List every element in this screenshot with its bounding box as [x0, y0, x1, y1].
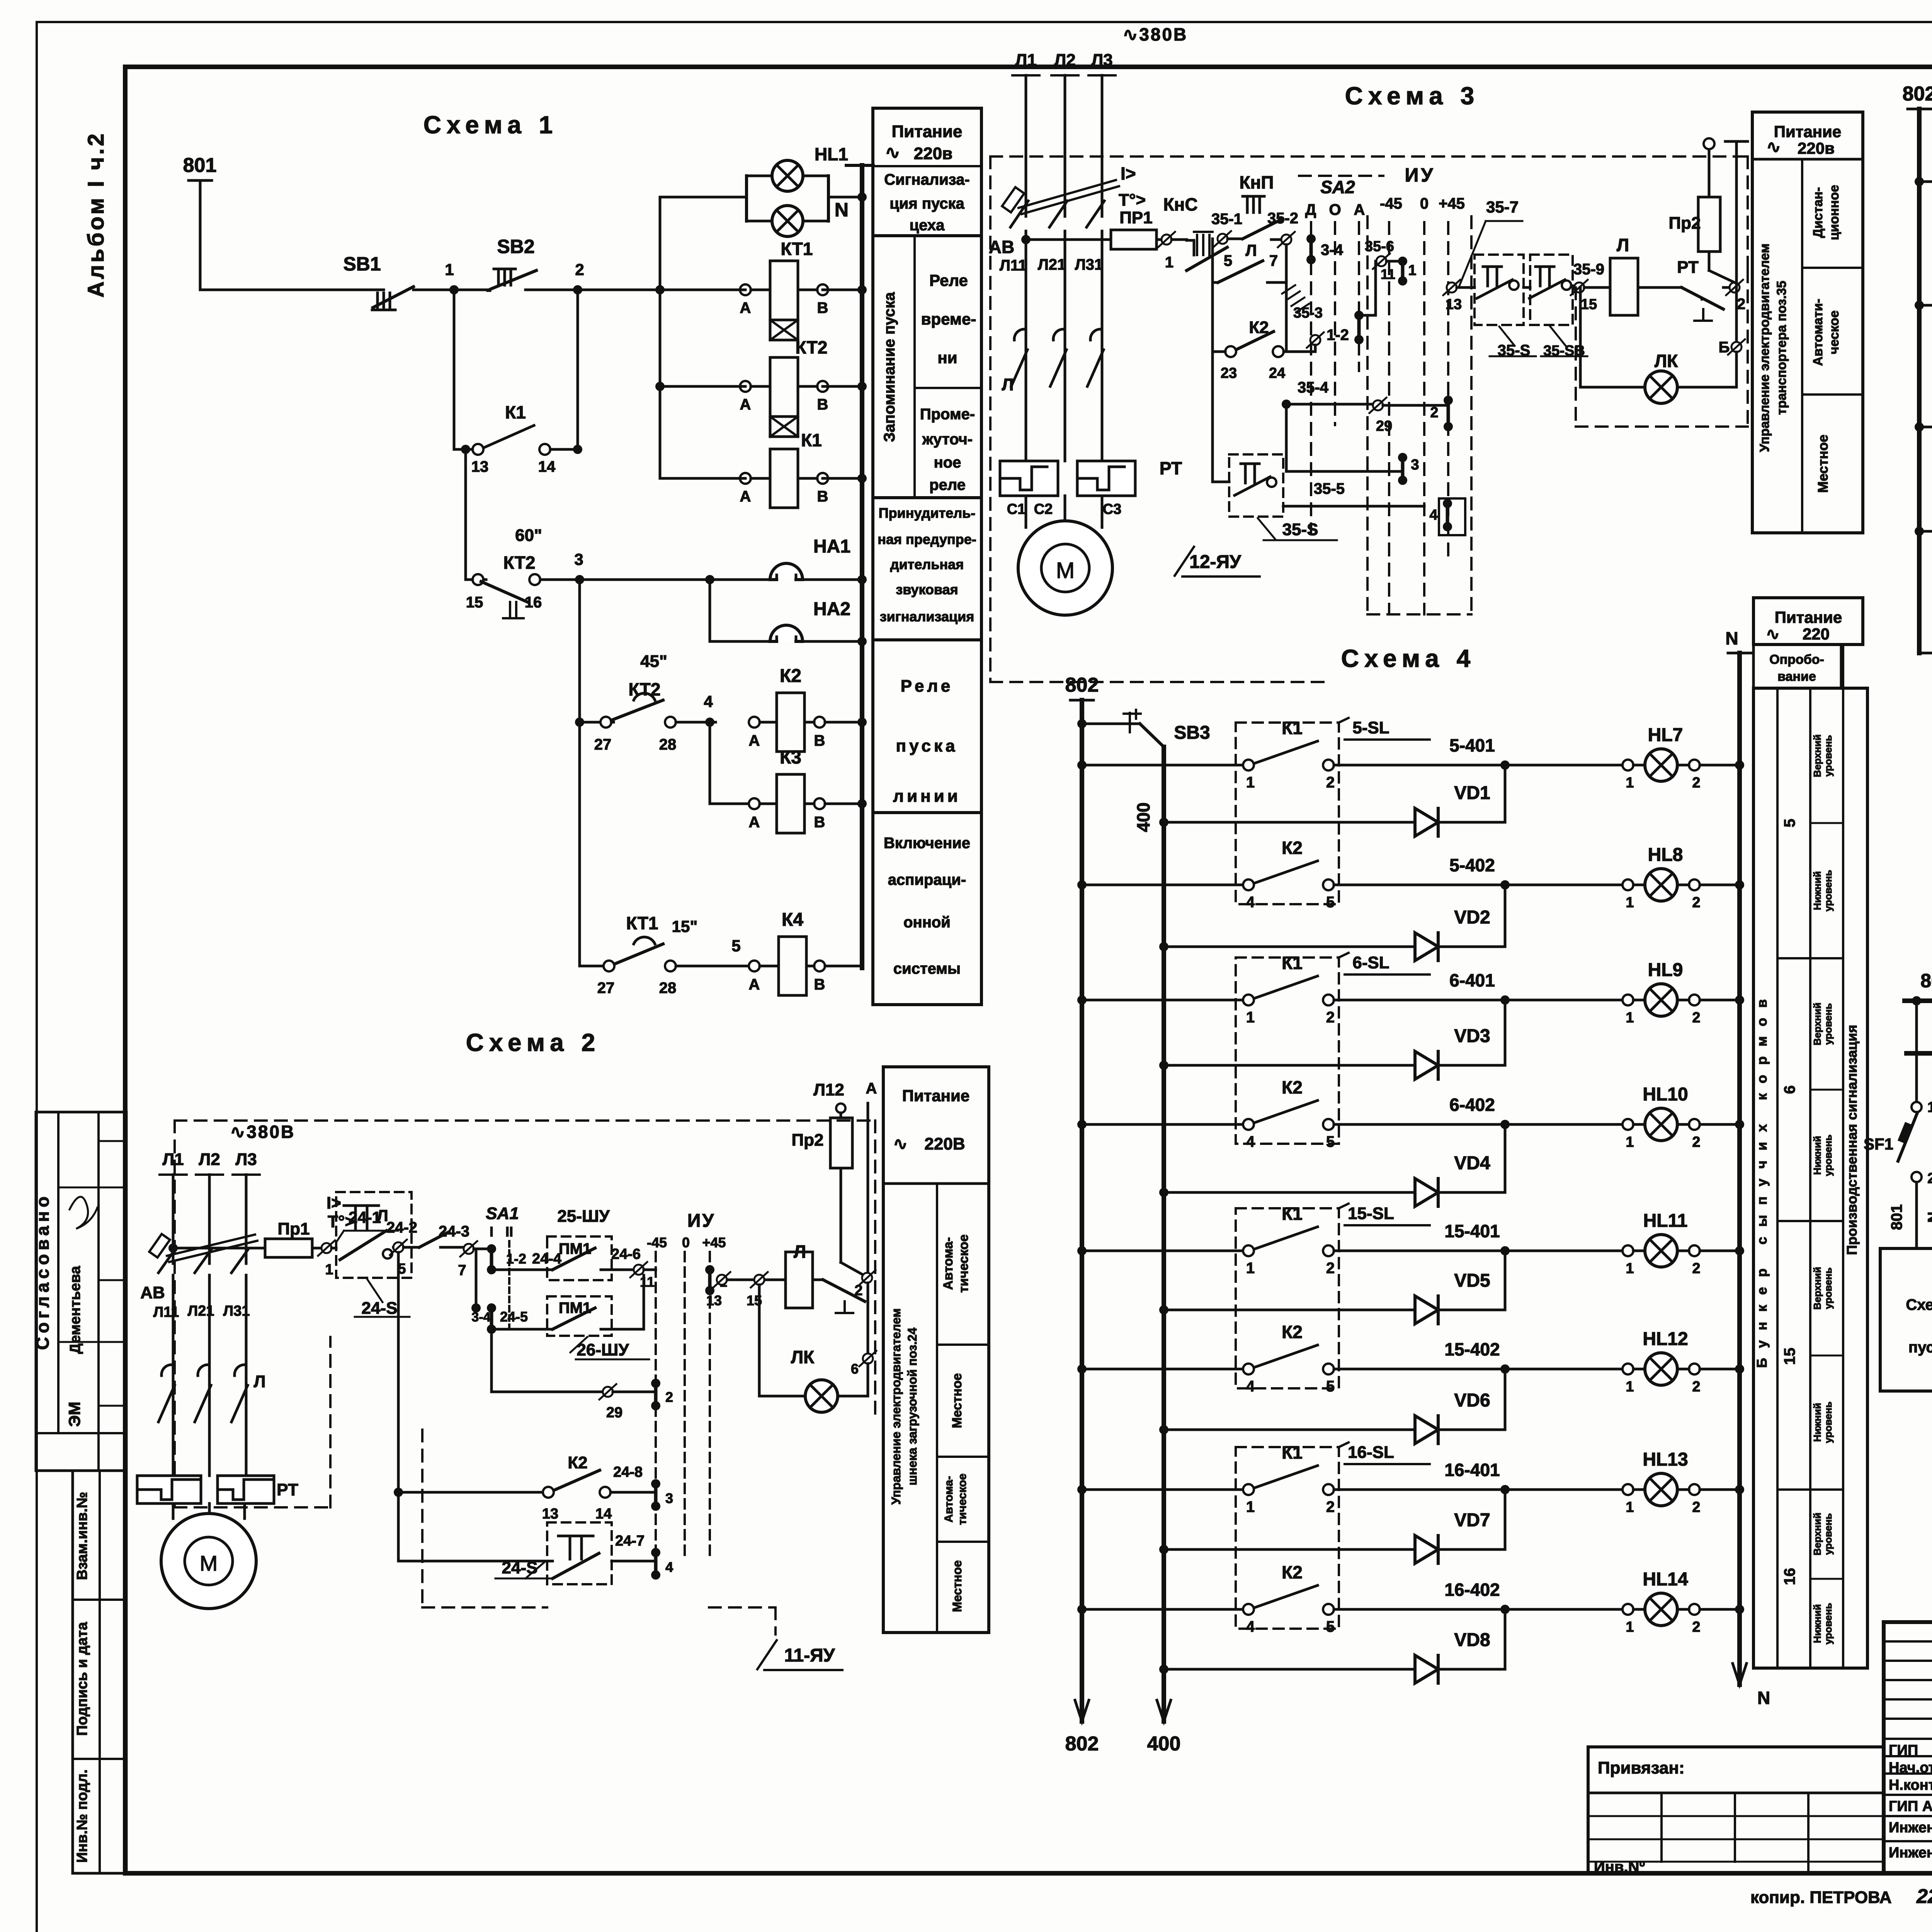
row 5-401 with lamp HL7 — [1077, 760, 1087, 770]
cell Автоматическое — [1802, 393, 1863, 396]
svg-text:16: 16 — [1781, 1568, 1798, 1585]
svg-text:К2: К2 — [1282, 1077, 1303, 1097]
svg-text:НА2: НА2 — [813, 599, 850, 619]
svg-text:В: В — [814, 732, 825, 749]
svg-text:Питание: Питание — [1775, 608, 1842, 626]
terminal 29 — [1373, 400, 1383, 410]
column Запоминание пуска — [913, 236, 916, 498]
SA1 contact 1-2 — [487, 1244, 496, 1253]
svg-text:35-7: 35-7 — [1486, 198, 1519, 216]
stamp signature — [70, 1197, 97, 1229]
svg-text:15: 15 — [1781, 1348, 1798, 1365]
svg-text:зигнализация: зигнализация — [880, 609, 975, 624]
svg-text:15: 15 — [466, 594, 483, 611]
svg-text:уровень: уровень — [1822, 1401, 1834, 1443]
svg-text:15: 15 — [1581, 296, 1597, 313]
svg-text:1: 1 — [445, 260, 454, 279]
svg-text:ПМ1: ПМ1 — [559, 1240, 591, 1257]
node 2 — [573, 285, 582, 294]
contact K2 schema3 — [1211, 282, 1214, 482]
svg-text:SF1: SF1 — [1864, 1135, 1893, 1153]
svg-text:Схема 1: Схема 1 — [423, 111, 558, 139]
svg-text:16-SL: 16-SL — [1348, 1443, 1394, 1462]
svg-text:Пр2: Пр2 — [792, 1131, 824, 1150]
svg-text:1: 1 — [1246, 1260, 1255, 1277]
svg-text:29: 29 — [1376, 418, 1392, 434]
svg-text:6-402: 6-402 — [1449, 1095, 1495, 1115]
svg-text:Л21: Л21 — [1038, 256, 1066, 273]
svg-text:Верхний: Верхний — [1811, 1267, 1823, 1310]
svg-text:1: 1 — [1246, 1498, 1255, 1515]
svg-text:VD8: VD8 — [1454, 1630, 1490, 1650]
IU contact 2 schema2 — [651, 1379, 660, 1388]
svg-text:24-S: 24-S — [502, 1558, 538, 1577]
label 24-S lower — [526, 1562, 545, 1578]
svg-text:пуска: пуска — [1908, 1339, 1932, 1356]
svg-text:802: 802 — [1065, 1733, 1099, 1755]
schema4 main table — [1753, 688, 1867, 1668]
svg-text:Нижний: Нижний — [1811, 1403, 1823, 1442]
svg-text:Инв.№ подл.: Инв.№ подл. — [74, 1769, 90, 1863]
svg-text:15": 15" — [672, 917, 698, 935]
cell Питание 220в — [873, 165, 981, 167]
breaker SF1 feeder 801 — [1912, 996, 1921, 1005]
svg-text:аспираци-: аспираци- — [888, 871, 966, 888]
svg-text:време-: време- — [921, 310, 976, 328]
svg-text:КнП: КнП — [1240, 172, 1274, 192]
svg-text:4: 4 — [1246, 1618, 1255, 1635]
svg-text:К1: К1 — [1282, 1442, 1303, 1463]
svg-text:2: 2 — [1692, 1260, 1700, 1277]
svg-text:7: 7 — [1269, 252, 1278, 269]
left stamp lower block — [73, 1471, 126, 1873]
svg-text:Схема 4: Схема 4 — [1341, 645, 1476, 672]
node 1 — [449, 285, 459, 294]
svg-text:24-S: 24-S — [362, 1299, 398, 1318]
wire lamps to N bus — [828, 196, 862, 199]
svg-text:ЛК: ЛК — [791, 1347, 815, 1367]
svg-text:К2: К2 — [568, 1453, 587, 1472]
relay coil K2 — [710, 721, 716, 724]
svg-text:О: О — [1329, 201, 1341, 218]
float switch P1 row 403 — [1919, 652, 1932, 655]
svg-text:N: N — [1925, 1212, 1932, 1223]
svg-text:Автома-: Автома- — [942, 1476, 955, 1522]
svg-text:Верхний: Верхний — [1811, 1003, 1823, 1046]
relay coil K4 — [749, 961, 760, 971]
wire node3 to bells — [580, 578, 710, 581]
phase wires schema2 — [172, 1275, 175, 1476]
svg-text:В: В — [817, 396, 828, 413]
svg-text:5: 5 — [1326, 894, 1335, 911]
label 26-ShU — [570, 1337, 587, 1352]
svg-text:13: 13 — [706, 1293, 722, 1308]
svg-text:VD1: VD1 — [1454, 783, 1490, 803]
svg-text:Производственная сигнализация: Производственная сигнализация — [1844, 1025, 1860, 1255]
svg-text:35-3: 35-3 — [1293, 305, 1323, 321]
svg-text:А: А — [1354, 201, 1365, 218]
svg-text:16-402: 16-402 — [1444, 1580, 1500, 1600]
svg-text:Л1: Л1 — [162, 1150, 184, 1169]
IU contact 1 — [1398, 257, 1407, 266]
svg-text:VD6: VD6 — [1454, 1390, 1490, 1411]
svg-text:уровень: уровень — [1822, 1134, 1834, 1176]
svg-text:Л3: Л3 — [1091, 51, 1112, 70]
svg-text:Запоминание пуска: Запоминание пуска — [881, 292, 898, 442]
svg-text:Инженер: Инженер — [1889, 1845, 1932, 1861]
svg-text:А: А — [740, 488, 751, 505]
svg-text:-45: -45 — [1380, 195, 1402, 212]
diode VD2 — [1159, 942, 1168, 951]
IU contact 1 schema2 — [705, 1265, 714, 1274]
svg-text:Верхний: Верхний — [1811, 1513, 1823, 1556]
label 24-S schema2 — [367, 1279, 383, 1302]
svg-text:системы: системы — [893, 960, 961, 977]
svg-text:SB2: SB2 — [497, 236, 534, 257]
svg-text:15-401: 15-401 — [1444, 1221, 1500, 1241]
svg-text:29: 29 — [606, 1405, 622, 1421]
contact L self-hold schema3 — [1211, 239, 1214, 282]
svg-text:2: 2 — [1430, 405, 1438, 421]
svg-text:SA1: SA1 — [486, 1204, 519, 1223]
svg-text:1: 1 — [1246, 1009, 1255, 1026]
svg-text:2: 2 — [1692, 1499, 1700, 1515]
svg-text:КТ2: КТ2 — [503, 553, 536, 573]
lamp HL1 bottom — [747, 220, 771, 223]
svg-text:II: II — [505, 1224, 513, 1240]
svg-text:12-ЯУ: 12-ЯУ — [1189, 552, 1242, 572]
junction riser — [655, 285, 665, 294]
svg-text:13: 13 — [471, 458, 489, 475]
svg-text:Автома-: Автома- — [941, 1237, 956, 1290]
svg-text:КТ2: КТ2 — [629, 679, 661, 699]
svg-text:М: М — [1056, 558, 1075, 583]
svg-text:ЭМ: ЭМ — [65, 1402, 83, 1427]
svg-text:жуточ-: жуточ- — [922, 431, 973, 448]
svg-text:28: 28 — [659, 980, 677, 997]
svg-text:Схема: Схема — [1906, 1296, 1932, 1313]
svg-text:К2: К2 — [780, 666, 801, 686]
svg-text:HL10: HL10 — [1643, 1084, 1688, 1105]
svg-text:5: 5 — [1326, 1133, 1335, 1150]
svg-text:∿380В: ∿380В — [1123, 24, 1188, 44]
svg-text:С1: С1 — [1007, 501, 1026, 517]
svg-text:Л2: Л2 — [1054, 51, 1075, 70]
svg-text:Л: Л — [1245, 241, 1257, 259]
svg-text:1: 1 — [1408, 262, 1416, 279]
svg-text:1-2: 1-2 — [506, 1251, 526, 1267]
terminal 2 schema2 — [862, 1273, 872, 1283]
svg-text:линии: линии — [893, 787, 961, 806]
contact box 5-SL — [1236, 723, 1339, 904]
svg-text:2: 2 — [1692, 775, 1700, 791]
svg-text:2: 2 — [1927, 1170, 1932, 1187]
svg-text:Л11: Л11 — [1000, 257, 1027, 274]
svg-text:ИУ: ИУ — [687, 1211, 715, 1231]
svg-text:Подпись и дата: Подпись и дата — [74, 1622, 90, 1736]
wire node1-SB2 — [454, 289, 488, 291]
svg-text:В: В — [814, 814, 825, 831]
svg-text:А: А — [749, 732, 760, 749]
motor M — [1018, 521, 1112, 615]
svg-text:копир. ПЕТРОВА: копир. ПЕТРОВА — [1750, 1888, 1891, 1907]
svg-text:5: 5 — [1326, 1378, 1335, 1395]
schema4 cell Опробование — [1753, 645, 1841, 688]
svg-text:27: 27 — [594, 736, 612, 753]
row 6-402 with lamp HL10 — [1077, 1120, 1087, 1129]
svg-text:802: 802 — [1903, 83, 1932, 105]
svg-text:АВ: АВ — [140, 1283, 165, 1302]
svg-text:24-3: 24-3 — [439, 1223, 469, 1240]
svg-text:2: 2 — [1326, 1260, 1335, 1277]
svg-text:0: 0 — [1420, 195, 1429, 212]
svg-text:∿: ∿ — [893, 1134, 908, 1153]
svg-text:Пр1: Пр1 — [278, 1219, 310, 1238]
cell Реле времени — [915, 387, 981, 389]
svg-text:HL11: HL11 — [1643, 1211, 1688, 1231]
wire rung 801-SB1 — [200, 289, 384, 291]
svg-text:ционное: ционное — [1827, 185, 1842, 240]
svg-text:Дементьева: Дементьева — [67, 1265, 83, 1354]
svg-text:220В: 220В — [924, 1134, 965, 1153]
limit switch BK2 contact 3-4 — [1915, 527, 1924, 536]
svg-text:801: 801 — [183, 154, 217, 177]
svg-text:24-2: 24-2 — [386, 1219, 417, 1236]
diode VD1 — [1159, 818, 1168, 827]
node 3 — [575, 575, 584, 584]
row 5-402 with lamp HL8 — [1077, 880, 1087, 889]
relay coil KT1 — [857, 285, 867, 294]
svg-text:Бункер сыпучих кормов: Бункер сыпучих кормов — [1754, 989, 1770, 1368]
motor M schema2 — [172, 1503, 175, 1519]
svg-text:КТ1: КТ1 — [626, 913, 658, 933]
svg-text:ция пуска: ция пуска — [889, 195, 964, 212]
svg-text:25-ШУ: 25-ШУ — [557, 1207, 610, 1226]
svg-text:шнека загрузочной поз.24: шнека загрузочной поз.24 — [905, 1328, 919, 1486]
svg-text:N: N — [1757, 1688, 1770, 1708]
svg-text:5: 5 — [731, 937, 740, 955]
cell Принудительная предупредительная звуковая сигнализация — [873, 638, 981, 641]
svg-text:Пр2: Пр2 — [1669, 214, 1701, 233]
svg-text:+45: +45 — [702, 1235, 726, 1250]
diode VD8 — [1159, 1665, 1168, 1674]
lamp group HL1 brackets — [745, 176, 748, 221]
svg-text:16-401: 16-401 — [1444, 1460, 1500, 1480]
contact K1 row 31-401 — [1915, 177, 1924, 186]
svg-text:35-S: 35-S — [1282, 520, 1318, 539]
svg-text:Инв.Nº: Инв.Nº — [1594, 1859, 1645, 1876]
contact K2 row 31-402 — [1915, 301, 1924, 310]
svg-text:К1: К1 — [505, 402, 526, 422]
schema3 control table — [1752, 112, 1863, 533]
svg-text:уровень: уровень — [1822, 1267, 1834, 1309]
switch box 24-S schema2 — [336, 1192, 412, 1278]
junction KT2 row — [655, 382, 665, 391]
terminal B — [1731, 342, 1742, 352]
svg-text:Дистан-: Дистан- — [1811, 187, 1825, 238]
35-S bottom door switch box — [1229, 454, 1283, 517]
row 15-402 with lamp HL12 — [1077, 1364, 1087, 1374]
door switch 35-SB — [1530, 255, 1573, 325]
svg-text:1: 1 — [1626, 1260, 1634, 1277]
svg-text:400: 400 — [1147, 1733, 1181, 1755]
svg-text:ИУ: ИУ — [1405, 164, 1435, 186]
svg-text:Нижний: Нижний — [1811, 1604, 1823, 1643]
schema3 dashed enclosure — [990, 155, 1748, 158]
svg-text:4: 4 — [1246, 1133, 1255, 1150]
IU contact 2 — [1444, 396, 1453, 405]
SA2 contact 3-4 — [1306, 234, 1316, 243]
svg-text:Нижний: Нижний — [1811, 871, 1823, 910]
svg-text:SB3: SB3 — [1174, 723, 1210, 743]
svg-text:Местное: Местное — [950, 1373, 964, 1429]
svg-text:6-401: 6-401 — [1449, 970, 1495, 990]
svg-text:А: А — [866, 1080, 877, 1097]
svg-text:Питание: Питание — [902, 1087, 969, 1105]
cell Промежуточное реле — [873, 496, 981, 499]
N bus of schema 1 — [846, 164, 873, 167]
svg-text:7: 7 — [458, 1262, 466, 1279]
door switch 35-S — [1475, 255, 1524, 325]
riser 1-2 to 3-4 — [475, 1249, 478, 1308]
svg-text:звуковая: звуковая — [896, 582, 958, 597]
row 15-401 with lamp HL11 — [1077, 1246, 1087, 1255]
wire lamp branch — [660, 196, 747, 199]
svg-text:3: 3 — [1411, 457, 1419, 473]
svg-text:ЛК: ЛК — [1655, 351, 1678, 371]
svg-text:4: 4 — [704, 692, 713, 711]
svg-text:Схема 3: Схема 3 — [1345, 82, 1480, 110]
svg-text:13: 13 — [1446, 296, 1462, 313]
node2 riser to row13-14 — [577, 290, 579, 449]
svg-text:Л1: Л1 — [1015, 51, 1036, 70]
title block main frame — [1884, 1622, 1932, 1873]
svg-text:VD7: VD7 — [1454, 1510, 1490, 1531]
svg-text:24: 24 — [1269, 365, 1285, 381]
svg-text:4: 4 — [1246, 1378, 1255, 1395]
svg-text:35-9: 35-9 — [1573, 261, 1604, 278]
svg-text:24-6: 24-6 — [611, 1246, 641, 1262]
svg-text:N: N — [835, 199, 849, 221]
svg-text:2: 2 — [1326, 1009, 1335, 1026]
svg-text:транспортера поз.35: транспортера поз.35 — [1774, 281, 1789, 415]
terminal 6 schema2 — [867, 1283, 869, 1354]
svg-text:Л: Л — [377, 1206, 388, 1225]
terminal 5 schema2 — [392, 1246, 395, 1249]
svg-text:вание: вание — [1777, 669, 1816, 684]
svg-text:Питание: Питание — [892, 122, 963, 141]
wire node2-junction — [578, 289, 660, 291]
label 11-ЯУ — [757, 1640, 777, 1669]
terminal 1 — [1162, 235, 1172, 245]
svg-text:КТ1: КТ1 — [781, 239, 813, 259]
svg-text:ПР1: ПР1 — [1119, 208, 1152, 227]
row 35-4 — [1286, 403, 1375, 406]
svg-text:6-SL: 6-SL — [1352, 953, 1389, 972]
svg-text:В: В — [814, 976, 825, 993]
svg-text:АВ: АВ — [989, 237, 1014, 257]
terminal 7 schema2 — [464, 1244, 474, 1254]
svg-text:Местное: Местное — [950, 1560, 964, 1612]
svg-text:цеха: цеха — [910, 217, 945, 234]
svg-text:2: 2 — [1692, 1134, 1700, 1150]
contact KT1 15sec — [580, 965, 604, 968]
svg-text:Сигнализа-: Сигнализа- — [884, 171, 969, 188]
svg-text:HL7: HL7 — [1648, 725, 1683, 745]
svg-text:1: 1 — [1927, 1099, 1932, 1116]
svg-text:Л12: Л12 — [813, 1080, 844, 1099]
svg-text:N: N — [1725, 628, 1738, 648]
bin number cells — [1777, 957, 1843, 959]
schema5 table Схема пуска — [1880, 1248, 1932, 1391]
svg-text:HL13: HL13 — [1643, 1449, 1688, 1470]
svg-text:15-SL: 15-SL — [1348, 1204, 1394, 1223]
svg-text:801: 801 — [1888, 1204, 1905, 1230]
bell HA2 — [709, 580, 711, 641]
branch to K3 — [709, 722, 711, 804]
svg-text:пуска: пуска — [896, 736, 958, 755]
svg-text:VD3: VD3 — [1454, 1026, 1490, 1046]
schema3 inner dashed box bottom — [1576, 425, 1748, 428]
svg-text:А: А — [740, 299, 751, 316]
level cells — [1810, 822, 1843, 824]
svg-text:1: 1 — [325, 1262, 333, 1278]
bell HA1 — [710, 578, 770, 581]
svg-text:Местное: Местное — [1815, 435, 1831, 493]
svg-text:SB1: SB1 — [343, 253, 381, 275]
svg-text:К2: К2 — [1282, 1322, 1303, 1342]
svg-text:16: 16 — [525, 594, 542, 611]
svg-text:15-402: 15-402 — [1444, 1339, 1500, 1359]
svg-text:Т°>: Т°> — [1119, 190, 1146, 209]
svg-text:Альбом I ч.2: Альбом I ч.2 — [83, 131, 109, 298]
contact box 16-SL — [1236, 1447, 1339, 1629]
svg-text:Н.контр.: Н.контр. — [1889, 1777, 1932, 1793]
diode VD3 — [1159, 1061, 1168, 1070]
SA1 contact 3-4 and PM1 26-ShU — [487, 1303, 496, 1313]
svg-text:Управление электродвигателем: Управление электродвигателем — [1757, 243, 1772, 452]
svg-text:5: 5 — [1326, 1618, 1335, 1635]
svg-text:28: 28 — [659, 736, 677, 753]
contact box 15-SL — [1236, 1208, 1339, 1388]
svg-text:3: 3 — [574, 550, 583, 568]
svg-text:2: 2 — [1326, 774, 1335, 791]
schema2 table — [883, 1067, 989, 1633]
svg-text:800: 800 — [1920, 970, 1932, 992]
svg-text:3: 3 — [665, 1490, 673, 1506]
diode VD6 — [1159, 1425, 1168, 1434]
svg-text:Б: Б — [1719, 339, 1730, 356]
svg-text:35-4: 35-4 — [1298, 379, 1329, 396]
svg-text:35-1: 35-1 — [1211, 211, 1242, 228]
svg-text:РТ: РТ — [1160, 458, 1182, 478]
svg-text:24-7: 24-7 — [615, 1533, 645, 1549]
svg-text:Л31: Л31 — [1075, 256, 1103, 273]
svg-text:тическое: тическое — [956, 1473, 969, 1525]
row 35-5 — [1283, 505, 1424, 508]
svg-text:VD4: VD4 — [1454, 1153, 1490, 1173]
svg-text:уровень: уровень — [1822, 735, 1834, 777]
svg-text:1: 1 — [1165, 254, 1173, 271]
svg-text:2: 2 — [854, 1282, 862, 1299]
svg-text:КТ2: КТ2 — [796, 337, 828, 357]
svg-text:∿: ∿ — [1767, 138, 1781, 156]
svg-text:2: 2 — [665, 1389, 673, 1405]
svg-text:онной: онной — [903, 914, 951, 931]
svg-text:Привязан:: Привязан: — [1598, 1759, 1685, 1777]
svg-text:5-SL: 5-SL — [1352, 718, 1389, 737]
svg-text:∿380В: ∿380В — [230, 1122, 296, 1142]
